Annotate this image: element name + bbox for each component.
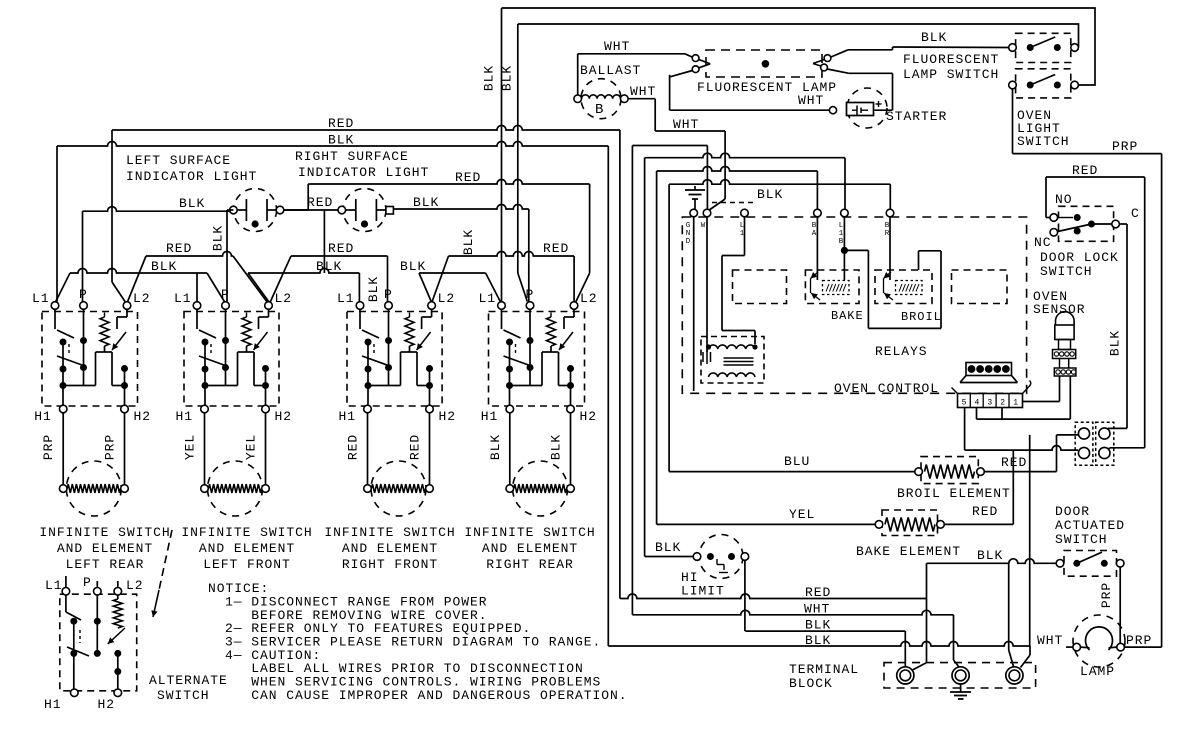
svg-text:BLK: BLK	[488, 434, 503, 460]
svg-text:WHT: WHT	[630, 84, 656, 99]
relay bake box	[805, 270, 859, 304]
svg-text:RED: RED	[408, 434, 423, 460]
label BLK right rear drop	[461, 229, 476, 255]
svg-text:BLK: BLK	[805, 633, 831, 648]
wire RED from left indicator (to top RED run)	[284, 180, 590, 303]
svg-text:BLK: BLK	[316, 259, 342, 274]
svg-text:L: L	[839, 222, 844, 230]
svg-text:L1: L1	[479, 291, 497, 306]
label hi limit	[681, 570, 725, 599]
label YEL	[789, 507, 815, 522]
label BLK vertical 1	[482, 65, 497, 91]
label WHT lamp	[1037, 633, 1063, 648]
infinite switch right front	[347, 302, 442, 516]
svg-text:WHT: WHT	[604, 39, 630, 54]
relay broil box	[875, 270, 932, 304]
label element left rear	[39, 525, 170, 572]
svg-text:A: A	[812, 230, 817, 238]
wire L1B staircase to broil	[844, 250, 941, 328]
svg-text:OVEN CONTROL: OVEN CONTROL	[834, 381, 939, 396]
wire BLK bus	[57, 142, 608, 647]
label RED sub-bus 3	[543, 241, 569, 256]
wire PRP door switch to lamp	[1119, 567, 1121, 643]
svg-text:SWITCH: SWITCH	[157, 688, 210, 703]
svg-text:RED: RED	[455, 170, 481, 185]
svg-text:ACTUATED: ACTUATED	[1055, 518, 1125, 533]
svg-text:BLK: BLK	[549, 434, 564, 460]
svg-text:H1: H1	[481, 409, 499, 424]
svg-text:H2: H2	[439, 409, 457, 424]
wire BLK bottom run 2	[608, 642, 1030, 668]
svg-text:R: R	[885, 230, 890, 238]
label BLK sub-bus 3	[400, 259, 426, 274]
label BLK door switch	[977, 548, 1003, 563]
svg-text:BROIL: BROIL	[901, 310, 942, 324]
svg-text:B: B	[595, 102, 604, 118]
svg-text:G: G	[686, 222, 691, 230]
wire pin1 to oven sensor	[1023, 376, 1060, 402]
wire BLK (hi-limit to L1B)	[645, 153, 845, 556]
indicator lamp right surface	[338, 189, 393, 232]
labels terminals right front	[337, 287, 456, 424]
label BLK right indicator wire	[413, 195, 439, 210]
svg-text:FLUORESCENT: FLUORESCENT	[903, 52, 999, 67]
label BLK bottom 2	[805, 633, 831, 648]
wire top supply line 1 (outer)	[502, 8, 1096, 85]
svg-text:B: B	[839, 238, 844, 246]
svg-text:INDICATOR LIGHT: INDICATOR LIGHT	[298, 165, 429, 180]
svg-text:YEL: YEL	[789, 507, 815, 522]
label element right front	[324, 525, 455, 572]
svg-text:C: C	[1131, 206, 1140, 221]
label BLK hi limit	[655, 540, 681, 555]
oven light switch	[1009, 69, 1079, 98]
wire PRP from oven light switch	[1013, 89, 1162, 647]
label RED bake	[972, 504, 998, 519]
svg-text:PRP: PRP	[41, 434, 56, 460]
svg-text:BLK: BLK	[805, 618, 831, 633]
label terminal block	[789, 662, 859, 691]
svg-text:H2: H2	[275, 409, 293, 424]
pin strip 5 4 3 2 1	[952, 381, 1031, 408]
label BLU	[784, 454, 810, 469]
wire BLK vertical (connector to terminal 3)	[1029, 435, 1031, 646]
svg-text:BLK: BLK	[655, 540, 681, 555]
svg-text:H2: H2	[580, 409, 598, 424]
wire BLK drop to terminal 3	[1009, 563, 1014, 666]
door lock switch	[1050, 206, 1119, 241]
label oven control	[834, 381, 939, 396]
ground (terminal block)	[950, 684, 971, 699]
label BLK vertical 2	[500, 65, 515, 91]
label RED top run	[455, 170, 481, 185]
label RED bottom	[805, 585, 831, 600]
svg-text:RED: RED	[307, 195, 333, 210]
infinite switch left front	[184, 302, 279, 516]
svg-text:B: B	[885, 222, 890, 230]
label RED broil	[1001, 455, 1027, 470]
svg-text:1: 1	[1013, 399, 1018, 408]
wire RED sub-bus 1	[127, 252, 268, 304]
label RED sub-bus 1	[166, 241, 192, 256]
label BLK sub-bus 1	[151, 259, 177, 274]
svg-text:H2: H2	[98, 697, 116, 712]
wire RED bus drop left	[112, 130, 125, 302]
svg-text:WHT: WHT	[804, 602, 830, 617]
infinite switch left rear	[42, 302, 138, 516]
labels terminals left front	[174, 287, 292, 424]
label bake element	[856, 544, 961, 559]
wire BLK sub-bus 2	[248, 269, 359, 303]
svg-text:RIGHT REAR: RIGHT REAR	[486, 557, 574, 572]
label left surface indicator light	[126, 153, 257, 184]
terminal block	[884, 663, 1036, 688]
svg-text:BALLAST: BALLAST	[580, 63, 641, 78]
wire BLU (broil element to BR)	[669, 180, 915, 472]
wire RED bake to pin5 wire	[944, 450, 1013, 524]
wire top supply line 2 (inner)	[518, 24, 1079, 48]
svg-text:H1: H1	[339, 409, 357, 424]
wire WHT ballast right	[628, 99, 725, 211]
label relays	[875, 344, 928, 359]
wire lamp loop	[670, 73, 893, 110]
labels alternate switch terminals	[44, 575, 144, 712]
svg-text:H1: H1	[44, 697, 62, 712]
svg-text:P: P	[526, 287, 535, 302]
electrode right	[813, 50, 849, 74]
svg-text:INFINITE SWITCH: INFINITE SWITCH	[324, 525, 455, 540]
svg-text:LEFT SURFACE: LEFT SURFACE	[126, 153, 231, 168]
notice text	[208, 581, 628, 703]
svg-text:TERMINAL: TERMINAL	[789, 662, 859, 677]
svg-text:L1: L1	[174, 291, 192, 306]
svg-text:LIMIT: LIMIT	[681, 584, 725, 599]
label PRP lamp	[1126, 633, 1152, 648]
label element right rear	[464, 525, 595, 572]
svg-text:CAN CAUSE IMPROPER AND DANGERO: CAN CAUSE IMPROPER AND DANGEROUS OPERATI…	[225, 688, 628, 703]
svg-text:LAMP SWITCH: LAMP SWITCH	[903, 67, 999, 82]
terminal W oven control	[703, 209, 711, 217]
relay box 4 (empty)	[952, 270, 1008, 304]
svg-text:INFINITE SWITCH: INFINITE SWITCH	[39, 525, 170, 540]
label starter	[886, 109, 947, 124]
svg-text:P: P	[79, 287, 88, 302]
svg-text:BLK: BLK	[500, 65, 515, 91]
door actuated switch	[1056, 551, 1124, 577]
label RED door lock	[1072, 163, 1098, 178]
svg-text:L1: L1	[45, 578, 63, 593]
svg-text:BLK: BLK	[211, 225, 226, 251]
svg-text:B: B	[812, 222, 817, 230]
wire WHT neutral (terminal block to W)	[632, 146, 959, 668]
svg-text:L2: L2	[133, 291, 151, 306]
svg-text:3: 3	[987, 399, 992, 408]
svg-text:BLOCK: BLOCK	[789, 676, 833, 691]
label ballast	[580, 63, 641, 78]
svg-text:BLK: BLK	[482, 65, 497, 91]
svg-text:P: P	[83, 575, 92, 590]
electrode left	[670, 55, 711, 77]
terminal GND oven control	[690, 209, 698, 217]
svg-text:AND ELEMENT: AND ELEMENT	[199, 541, 295, 556]
oven lamp	[1073, 615, 1125, 667]
label fluorescent lamp	[697, 80, 837, 95]
infinite switch right rear	[489, 302, 585, 516]
label BLK on P right-front drop	[366, 276, 381, 302]
svg-text:PRP: PRP	[1099, 582, 1114, 608]
label element left front	[181, 525, 312, 572]
label BLK on indicator drop	[211, 225, 226, 251]
label bake relay	[831, 309, 864, 323]
fluorescent lamp tube	[706, 50, 822, 77]
label oven sensor	[1033, 289, 1086, 317]
svg-text:L2: L2	[126, 578, 144, 593]
transformer (oven control)	[701, 337, 764, 384]
bake element	[875, 510, 944, 536]
wire WHT bottom label	[804, 602, 830, 617]
svg-text:RED: RED	[328, 241, 354, 256]
svg-text:NO: NO	[1055, 192, 1073, 207]
starter	[829, 88, 887, 128]
wire RED sub-bus 2	[270, 256, 388, 303]
wire RED broil to connector	[984, 435, 1078, 472]
wire WHT stub to lamp	[1066, 646, 1073, 648]
fluorescent lamp switch	[1009, 33, 1079, 62]
wire BLK vertical 2 (to P of infinite switch right rear)	[518, 24, 528, 302]
svg-text:BROIL ELEMENT: BROIL ELEMENT	[897, 486, 1011, 501]
svg-text:BLK: BLK	[757, 187, 783, 202]
wire BR into broil relay	[889, 217, 891, 280]
terminal L1 oven control	[741, 209, 749, 217]
wire RED sub-bus 3	[432, 252, 574, 304]
wire BLK to left indicator	[83, 207, 230, 211]
svg-text:L1: L1	[32, 291, 50, 306]
label RED bus	[328, 116, 354, 131]
svg-text:INFINITE SWITCH: INFINITE SWITCH	[181, 525, 312, 540]
svg-text:L2: L2	[580, 291, 598, 306]
svg-text:LAMP: LAMP	[1080, 664, 1115, 679]
wire RED door lock loop	[1046, 177, 1145, 451]
wire L1B with junction	[841, 217, 848, 280]
label BLK left indicator wire	[179, 196, 205, 211]
svg-text:BAKE: BAKE	[831, 309, 864, 323]
svg-text:SWITCH: SWITCH	[1017, 134, 1070, 149]
svg-text:5: 5	[962, 399, 967, 408]
svg-text:RED: RED	[1072, 163, 1098, 178]
svg-text:BLK: BLK	[400, 259, 426, 274]
label BLK door lock drop	[1108, 330, 1123, 356]
svg-text:BLK: BLK	[1108, 330, 1123, 356]
svg-text:AND ELEMENT: AND ELEMENT	[342, 541, 438, 556]
svg-text:H2: H2	[134, 409, 152, 424]
svg-text:RED: RED	[972, 504, 998, 519]
wire BA into bake relay	[816, 217, 818, 280]
svg-text:2: 2	[1000, 399, 1005, 408]
svg-text:BLK: BLK	[921, 30, 947, 45]
svg-text:WHT: WHT	[1037, 633, 1063, 648]
label alternate switch	[149, 673, 228, 703]
wire pin5 to connector block	[965, 408, 1078, 451]
svg-text:BLK: BLK	[151, 259, 177, 274]
svg-text:SENSOR: SENSOR	[1033, 302, 1086, 317]
svg-text:BLK: BLK	[366, 276, 381, 302]
svg-text:D: D	[686, 238, 691, 246]
terminal L1B oven control	[841, 209, 849, 217]
label RED between indicators	[307, 195, 333, 210]
wire BLK door switch feed	[927, 559, 1057, 564]
label WHT ballast left	[604, 39, 630, 54]
connector (oven control output)	[960, 363, 1018, 383]
label wire colors left front	[183, 434, 259, 460]
labels terminals left rear	[32, 287, 151, 424]
wire RED bus	[112, 126, 620, 599]
svg-text:BLK: BLK	[461, 229, 476, 255]
svg-text:P: P	[384, 287, 393, 302]
wire WHT ballast left	[578, 54, 692, 95]
label WHT starter	[798, 93, 824, 108]
svg-text:P: P	[221, 287, 230, 302]
hi limit switch	[693, 535, 749, 579]
alternate switch	[60, 576, 137, 697]
svg-text:RED: RED	[328, 116, 354, 131]
wire right indicator left terminal drop	[323, 210, 325, 273]
label broil relay	[901, 310, 942, 324]
label lamp	[1080, 664, 1115, 679]
label right surface indicator light	[295, 149, 429, 180]
label BLK sub-bus 2	[316, 259, 342, 274]
oven sensor	[1053, 312, 1076, 376]
svg-text:DOOR LOCK: DOOR LOCK	[1040, 250, 1119, 265]
wire BLK from C terminal	[1105, 224, 1127, 431]
wire pin4/pin2 to oven sensor	[977, 376, 1071, 419]
wire BLK from right indicator	[394, 205, 529, 302]
svg-text:SWITCH: SWITCH	[1055, 532, 1108, 547]
svg-text:4: 4	[974, 399, 979, 408]
indicator lamp left surface	[230, 189, 284, 232]
relay bake coil	[811, 272, 850, 300]
wire left indicator to P left-front switch	[227, 210, 233, 302]
svg-text:NC: NC	[1034, 235, 1052, 250]
label PRP door switch	[1099, 582, 1114, 608]
label broil element	[897, 486, 1011, 501]
label wire colors right rear	[488, 434, 564, 460]
svg-text:YEL: YEL	[183, 434, 198, 460]
svg-text:AND ELEMENT: AND ELEMENT	[482, 541, 578, 556]
label BLK bottom 1	[805, 618, 831, 633]
svg-text:RED: RED	[166, 241, 192, 256]
label WHT mid run	[673, 117, 699, 132]
svg-text:H1: H1	[176, 409, 194, 424]
svg-text:WHT: WHT	[673, 117, 699, 132]
svg-text:DOOR: DOOR	[1055, 504, 1090, 519]
svg-text:WHT: WHT	[798, 93, 824, 108]
relay box 1 (empty)	[733, 270, 787, 304]
svg-text:ALTERNATE: ALTERNATE	[149, 673, 228, 688]
svg-text:STARTER: STARTER	[886, 109, 947, 124]
svg-text:AND ELEMENT: AND ELEMENT	[57, 541, 153, 556]
connector block right	[1096, 422, 1114, 465]
svg-text:RELAYS: RELAYS	[875, 344, 928, 359]
labels oven control terminals	[686, 222, 890, 246]
wire RED between indicators	[284, 209, 338, 211]
wire RED bottom run	[620, 594, 927, 599]
connector block left	[1075, 422, 1093, 465]
svg-text:BLK: BLK	[977, 548, 1003, 563]
svg-text:H1: H1	[34, 409, 52, 424]
oven control box	[682, 217, 1026, 393]
svg-text:LEFT FRONT: LEFT FRONT	[203, 557, 291, 572]
svg-text:N: N	[686, 230, 691, 238]
pointer arrow to left rear switch	[151, 530, 172, 617]
svg-text:INDICATOR LIGHT: INDICATOR LIGHT	[126, 169, 257, 184]
wire YEL (bake element to BA)	[657, 167, 875, 525]
terminal BA oven control	[814, 209, 822, 217]
wire BLK bottom run 1	[745, 631, 905, 666]
svg-text:RIGHT SURFACE: RIGHT SURFACE	[295, 149, 409, 164]
broil element	[915, 457, 985, 484]
label BLK bus	[328, 133, 354, 148]
labels door lock switch	[1034, 192, 1140, 279]
wire BLK lamp to switch	[848, 47, 1009, 50]
label door actuated switch	[1055, 504, 1125, 547]
svg-text:L2: L2	[275, 291, 293, 306]
wire RED drop to terminal 1	[912, 563, 927, 670]
label BLK near W	[712, 187, 783, 203]
wire L1 column (to transformer)	[722, 217, 755, 344]
svg-text:L1: L1	[337, 291, 355, 306]
wire BLK drop to P left-rear switch	[82, 211, 84, 301]
svg-text:YEL: YEL	[244, 434, 259, 460]
ground symbol (oven control)	[685, 186, 705, 209]
label RED sub-bus 2	[328, 241, 354, 256]
svg-text:BLK: BLK	[328, 133, 354, 148]
ballast	[574, 79, 628, 119]
svg-text:SWITCH: SWITCH	[1040, 264, 1093, 279]
wire hi limit right drop	[744, 560, 746, 631]
svg-text:PRP: PRP	[1112, 139, 1138, 154]
svg-text:W: W	[701, 222, 706, 230]
terminal BR oven control	[886, 209, 894, 217]
wire BLK sub-bus 3	[419, 273, 501, 302]
wire BLK vertical 1 (to L1 of infinite switch right rear)	[501, 8, 503, 302]
wire GND column	[693, 217, 695, 391]
label fluorescent lamp switch	[903, 52, 999, 82]
wire W column	[706, 217, 708, 352]
label PRP top	[1112, 139, 1138, 154]
svg-text:RIGHT FRONT: RIGHT FRONT	[342, 557, 438, 572]
svg-text:INFINITE SWITCH: INFINITE SWITCH	[464, 525, 595, 540]
svg-text:RED: RED	[346, 434, 361, 460]
svg-text:L2: L2	[438, 291, 456, 306]
svg-text:BLK: BLK	[413, 195, 439, 210]
svg-text:BLU: BLU	[784, 454, 810, 469]
svg-text:BAKE ELEMENT: BAKE ELEMENT	[856, 544, 961, 559]
svg-text:RED: RED	[543, 241, 569, 256]
svg-text:BLK: BLK	[179, 196, 205, 211]
svg-text:RED: RED	[805, 585, 831, 600]
label wire colors left rear	[41, 434, 117, 460]
svg-text:PRP: PRP	[103, 434, 118, 460]
label wire colors right front	[346, 434, 423, 460]
label WHT ballast right	[630, 84, 656, 99]
label BLK lamp wire	[921, 30, 947, 45]
label oven light switch	[1017, 108, 1070, 149]
wire BLK bus drop left	[56, 146, 58, 302]
svg-text:PRP: PRP	[1126, 633, 1152, 648]
svg-text:LEFT REAR: LEFT REAR	[66, 557, 145, 572]
wire BLK sub-bus 1	[55, 269, 225, 304]
relay broil coil	[884, 272, 923, 300]
